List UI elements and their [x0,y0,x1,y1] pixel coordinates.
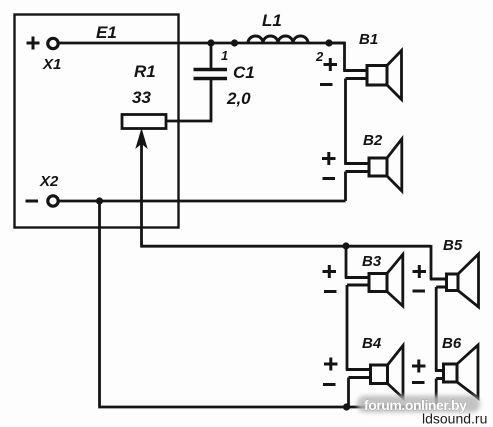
enclosure box E1 [15,15,179,228]
wire rail to B5 [430,245,433,279]
capacitor C1 [194,43,228,121]
label B3 [362,253,382,270]
speaker B2 [344,139,402,191]
junction dot wiper rail [342,242,349,249]
minus sign B2 [323,177,336,180]
minus sign B5 [413,290,426,293]
speaker B5 [430,254,479,307]
svg-text:B6: B6 [442,335,462,352]
svg-text:X1: X1 [42,56,61,73]
wire node2 to B1 [329,43,345,71]
inductor L1 [248,36,308,43]
label X2 [39,173,59,190]
svg-text:B3: B3 [362,253,382,270]
speaker B3 [345,255,403,307]
watermark band [357,396,480,413]
svg-text:2,0: 2,0 [226,89,251,108]
label B5 [443,237,463,254]
wire left drop [98,202,101,406]
svg-text:E1: E1 [96,23,117,42]
wire B1 to B2 [344,79,347,164]
label B4 [362,335,382,352]
plus sign B5 [413,265,427,278]
pin label 2 [315,49,324,64]
svg-text:33: 33 [132,88,151,107]
label B1 [359,31,378,48]
label B2 [363,132,383,149]
speaker B1 [343,51,401,100]
minus sign B1 [320,83,333,86]
label B6 [442,335,462,352]
node 2 junction dot [325,39,332,46]
label R1 [134,62,156,81]
speaker B6 [435,345,478,398]
svg-text:B2: B2 [363,132,383,149]
svg-text:ldsound.ru: ldsound.ru [422,411,487,427]
svg-text:B4: B4 [362,335,382,352]
plus sign B2 [322,152,336,165]
plus sign B4 [324,358,338,371]
terminal X1 [27,37,59,50]
junction dot bottom rail [343,403,350,410]
wire bottom rail [98,406,436,409]
node dot L1 pin 1 [231,39,238,46]
watermark forum.onliner.by [364,397,467,413]
resistor R1 [122,115,166,129]
value 2,0 [226,89,251,108]
label L1 [262,11,282,30]
wire C1 to R1 [166,120,212,123]
pin label 1 [221,48,228,63]
wire B2 return [344,172,347,202]
svg-text:R1: R1 [134,62,156,81]
svg-text:X2: X2 [39,173,59,190]
minus sign B4 [323,383,336,386]
wiper arrow of R1 [137,131,147,246]
label C1 [233,63,255,82]
svg-text:B1: B1 [359,31,378,48]
plus sign B6 [412,360,426,373]
terminal X2 [26,196,59,206]
wire X1 to node [59,42,345,45]
wire wiper rail to speakers [140,245,431,248]
junction dot X2 [96,197,103,204]
svg-text:1: 1 [221,48,228,63]
speaker B4 [346,346,403,399]
plus sign B1 [324,58,338,71]
wire X2 return [59,200,346,203]
wire B4 return [347,378,350,407]
label E1 [96,23,117,42]
node 1 junction dot [207,39,214,46]
plus sign B3 [323,265,337,278]
minus sign B6 [412,381,425,384]
wire junction to B3 [345,246,348,278]
svg-text:B5: B5 [443,237,463,254]
svg-text:C1: C1 [233,63,255,82]
wire B6 return [435,379,438,408]
value 33 [132,88,151,107]
wire B5 to B6 [435,287,438,371]
watermark ldsound.ru [422,411,487,427]
label X1 [42,56,61,73]
svg-text:2: 2 [315,49,324,64]
wire B3 to B4 [346,285,349,370]
svg-text:L1: L1 [262,11,282,30]
minus sign B3 [324,290,337,293]
